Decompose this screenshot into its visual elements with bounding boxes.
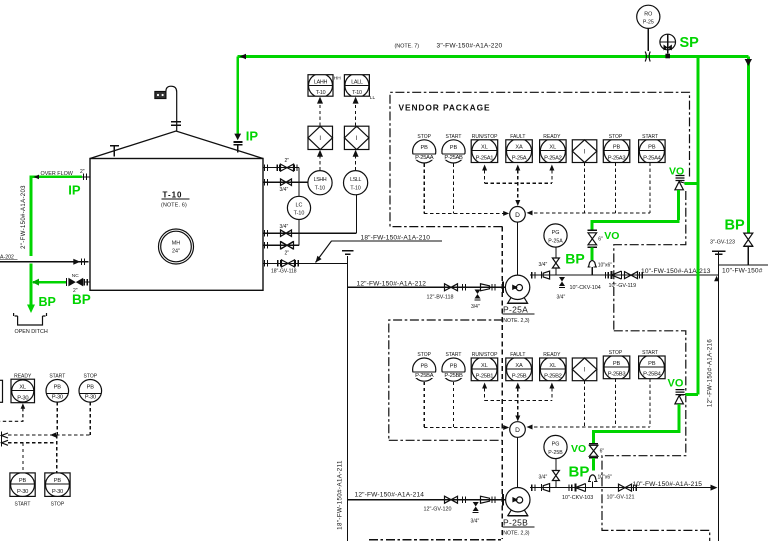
svg-text:12"-BV-118: 12"-BV-118: [427, 294, 454, 300]
label STOP below: [51, 502, 65, 508]
spade blind top: [342, 251, 354, 255]
signal XA down to D: [515, 165, 520, 207]
svg-text:BP: BP: [72, 292, 91, 307]
label HH: [334, 76, 341, 82]
green drop below VO3: [678, 404, 681, 430]
svg-text:P-25B: P-25B: [512, 374, 527, 380]
svg-text:P-25B2: P-25B2: [544, 374, 562, 380]
svg-text:PG: PG: [552, 442, 560, 448]
label SP: [680, 35, 700, 51]
svg-text:START: START: [446, 134, 462, 140]
label VO2: [604, 230, 619, 242]
svg-text:T-10: T-10: [350, 186, 360, 192]
signal PB-BB down: [453, 382, 455, 428]
signal interlock2 down: [584, 381, 586, 427]
svg-text:PB: PB: [54, 385, 62, 391]
svg-text:P-25B: P-25B: [548, 450, 563, 456]
svg-text:PB: PB: [648, 361, 656, 367]
svg-text:READY: READY: [14, 373, 32, 379]
svg-text:(NOTE. 2,3): (NOTE. 2,3): [502, 531, 530, 537]
svg-text:3/4": 3/4": [471, 519, 480, 525]
valve VO1 vendor: [675, 176, 685, 190]
reducer suction A: [481, 284, 496, 291]
overflow label: [41, 171, 74, 177]
LSLL T-10: [344, 171, 368, 195]
drain 3/4 discharge A: [557, 277, 566, 300]
svg-text:RUN/STOP: RUN/STOP: [472, 134, 498, 140]
svg-text:12"-GV-120: 12"-GV-120: [424, 507, 452, 513]
label RUN/STOP 1: [472, 134, 498, 140]
svg-text:PB: PB: [450, 363, 458, 369]
light XL P-25B1: [471, 357, 498, 382]
svg-text:P-25A2: P-25A2: [544, 155, 562, 161]
svg-text:PB: PB: [54, 478, 62, 484]
standpipe upper: [298, 168, 300, 197]
svg-text:XA: XA: [515, 145, 523, 151]
svg-text:2": 2": [285, 158, 290, 164]
signal PB-A3 down: [615, 163, 617, 213]
svg-text:START: START: [15, 502, 31, 508]
label 12-FW-150-A1A-212: [357, 280, 427, 287]
inlet line A-202: [0, 254, 89, 265]
signal XL-A1 up: [482, 165, 487, 184]
svg-text:PG: PG: [552, 230, 560, 236]
pushbutton PB P-25BA: [412, 358, 436, 381]
svg-text:VO: VO: [669, 165, 684, 177]
svg-text:MH: MH: [172, 241, 180, 247]
label STOP 2: [417, 352, 431, 358]
tank T-10 roof: [90, 131, 263, 159]
svg-text:P-25AA: P-25AA: [415, 155, 434, 161]
signal LSHH to interlock: [317, 150, 323, 171]
green to bell B: [592, 458, 595, 471]
svg-text:3/4": 3/4": [557, 294, 566, 300]
svg-text:OPEN DITCH: OPEN DITCH: [15, 329, 48, 335]
tank T-10 label: [161, 190, 190, 208]
svg-text:STOP: STOP: [609, 134, 623, 140]
signal PB-B4 down: [649, 379, 651, 427]
svg-text:24": 24": [172, 249, 180, 255]
svg-text:P-30: P-30: [52, 489, 63, 495]
line no 12-FW-150-A1A-216: [708, 339, 714, 408]
signal XL-A2 up: [549, 165, 554, 184]
svg-text:3"-GV-123: 3"-GV-123: [710, 239, 735, 245]
svg-text:PB: PB: [648, 145, 656, 151]
svg-text:LALL: LALL: [351, 80, 363, 86]
label START P-30: [49, 373, 65, 379]
svg-text:HH: HH: [334, 76, 341, 82]
svg-text:STOP: STOP: [417, 352, 431, 358]
pushbutton PB P-25B4: [639, 355, 666, 380]
svg-text:P-25A3: P-25A3: [608, 155, 626, 161]
pushbutton PB P-30 stop sq: [45, 473, 70, 497]
nozzle 3/4in LSLL tap: [263, 224, 356, 236]
drain 3/4 suction B: [471, 502, 480, 525]
signal XL-B2 up: [549, 383, 554, 401]
label READY P-30: [14, 373, 32, 379]
green arrow to open ditch: [27, 305, 35, 314]
motor line D2 to pump B: [517, 437, 519, 487]
gauge PG P-25A: [544, 224, 567, 247]
green cross line B: [594, 430, 681, 443]
discharge line B: [530, 487, 711, 489]
pump A inlet flange and arrow: [503, 282, 518, 293]
label START below: [15, 502, 31, 508]
light XL P-25B2: [540, 357, 567, 382]
nozzle 2in locked: [263, 241, 299, 256]
pump P-25B: [506, 488, 530, 516]
roof nozzle right (IP target): [233, 142, 242, 153]
svg-text:P-25: P-25: [643, 19, 654, 25]
pipe to right edge: [719, 264, 768, 266]
svg-text:VENDOR PACKAGE: VENDOR PACKAGE: [399, 103, 491, 113]
svg-text:VO: VO: [604, 230, 619, 242]
svg-text:3/4": 3/4": [280, 224, 289, 230]
green drop below VO1: [677, 190, 680, 220]
signal XL P-30 exit: [0, 403, 25, 421]
svg-text:PB: PB: [450, 145, 458, 151]
pushbutton PB P-25B3: [603, 355, 630, 380]
overflow line green: [31, 175, 82, 257]
label P-25A: [502, 305, 535, 324]
svg-text:VO: VO: [571, 443, 586, 455]
svg-text:6": 6": [598, 236, 603, 242]
green to bell A: [591, 247, 594, 260]
svg-text:FAULT: FAULT: [510, 352, 525, 358]
valve VO4 6in: [589, 444, 604, 458]
label STOP P-30: [84, 373, 98, 379]
signal drop to START sq: [22, 443, 24, 473]
pump B inlet flange and arrow: [503, 494, 518, 505]
svg-text:2"-FW-150#-A1A-203: 2"-FW-150#-A1A-203: [21, 185, 27, 249]
svg-text:P-30: P-30: [17, 489, 28, 495]
PG P-25A root valve: [539, 247, 560, 275]
label VO1: [669, 165, 684, 177]
svg-text:10"-CKV-104: 10"-CKV-104: [570, 285, 601, 291]
offpage instrument sliver: [0, 380, 3, 402]
svg-text:P-25A: P-25A: [512, 155, 527, 161]
label 10-FW-150 right: [722, 268, 763, 275]
roof nozzle left: [110, 146, 119, 157]
label 10-CKV-104: [570, 285, 601, 291]
svg-text:PB: PB: [613, 145, 621, 151]
svg-text:10"-FW-150#: 10"-FW-150#: [722, 268, 763, 275]
check valve 10-CKV-103: [562, 484, 593, 501]
svg-text:START: START: [642, 350, 658, 356]
gauge PG P-25B: [544, 435, 567, 458]
signal PB-B3 down: [615, 379, 617, 427]
header 18-FW down: [347, 256, 349, 541]
drain 3/4 suction A: [471, 290, 481, 311]
svg-text:6": 6": [600, 448, 605, 454]
nozzle 2in top: [263, 158, 299, 171]
label START 1: [446, 134, 462, 140]
flow arrow top left: [240, 54, 247, 60]
svg-text:T-10: T-10: [163, 190, 183, 199]
svg-text:18"-FW-150#-A1A-210: 18"-FW-150#-A1A-210: [361, 234, 431, 241]
svg-text:3/4": 3/4": [539, 262, 548, 268]
signal XL-B1 up: [482, 383, 487, 401]
svg-text:D: D: [515, 427, 520, 434]
label FAULT 2: [510, 352, 525, 358]
svg-text:10"-CKV-103: 10"-CKV-103: [562, 495, 593, 501]
label BP left2: [72, 292, 91, 307]
svg-text:LL: LL: [370, 95, 376, 101]
nozzle 18in outlet: [263, 260, 348, 274]
svg-text:XL: XL: [549, 363, 556, 369]
spade blind right header: [712, 251, 726, 254]
svg-text:2": 2": [80, 169, 85, 175]
valve 12-GV-120: [424, 496, 466, 513]
svg-text:VO: VO: [668, 377, 684, 389]
valve VO2 6in: [588, 230, 603, 247]
signal bus mid1: [485, 182, 552, 184]
light XL P-25A1: [471, 139, 498, 164]
discharge flanges B: [532, 484, 535, 490]
svg-text:3"-FW-150#-A1A-220: 3"-FW-150#-A1A-220: [437, 42, 503, 49]
tank manway MH 24in: [159, 229, 194, 264]
label NOTE 7: [395, 43, 420, 49]
orifice plate symbol: [645, 52, 650, 62]
vendor package 1 title: [399, 103, 491, 113]
line label 18-FW-150-A1A-210: [316, 234, 442, 262]
alarm XA P-25A: [506, 139, 533, 164]
svg-text:10"-FW-150#-A1A-215: 10"-FW-150#-A1A-215: [633, 481, 703, 488]
bypass line green: [32, 279, 66, 286]
svg-text:READY: READY: [543, 352, 561, 358]
label P-25B: [502, 518, 535, 537]
label 3-FW-150-A1A-220: [437, 42, 503, 49]
svg-text:18"-GV-118: 18"-GV-118: [271, 268, 297, 274]
flame screen E55: [155, 92, 166, 99]
valve VO3 vendor: [675, 390, 685, 404]
signal bus P-30 1: [8, 433, 90, 438]
LC T-10: [287, 196, 310, 219]
standpipe lower: [298, 219, 300, 245]
interlock I left: [308, 126, 333, 149]
pushbutton PB P-25A3: [603, 139, 630, 164]
svg-text:P-25B: P-25B: [503, 518, 528, 528]
pushbutton PB P-30 start: [46, 380, 69, 403]
svg-text:XL: XL: [481, 145, 488, 151]
svg-text:XL: XL: [549, 145, 556, 151]
label STOP 1b: [609, 134, 623, 140]
discharge reducer B: [542, 484, 550, 492]
open ditch text: [15, 329, 48, 335]
green header 3-FW-A1A-220: [238, 55, 749, 58]
svg-text:D: D: [515, 212, 520, 219]
svg-text:NC: NC: [72, 273, 79, 279]
svg-text:PB: PB: [613, 361, 621, 367]
pushbutton PB P-25AA: [412, 140, 436, 163]
svg-text:RUN/STOP: RUN/STOP: [472, 352, 498, 358]
svg-text:LC: LC: [296, 202, 303, 208]
motor line D to pump A: [517, 222, 519, 275]
light XL P-30: [11, 379, 35, 403]
svg-text:PB: PB: [420, 363, 428, 369]
svg-text:STOP: STOP: [609, 350, 623, 356]
offpage connector: [2, 432, 9, 447]
label 12-FW-150-A1A-214: [355, 491, 425, 498]
alarm LAHH T-10: [308, 73, 333, 97]
LSHH T-10: [308, 171, 332, 195]
PG P-25B root valve: [539, 459, 560, 488]
label READY 1: [543, 134, 561, 140]
svg-text:3/4": 3/4": [539, 474, 548, 480]
label 10-FW-150-A1A-215: [633, 481, 703, 488]
valve 12-BV-118: [427, 284, 466, 301]
green drop right to 3GV123: [745, 57, 752, 233]
line no 18-FW-150-A1A-211: [337, 460, 344, 530]
signal bus mid2: [485, 399, 552, 401]
label START 1b: [642, 134, 658, 140]
suction line B 12-A1A-214: [348, 499, 506, 501]
svg-text:P-25B4: P-25B4: [643, 372, 662, 378]
signal LSLL to interlock: [353, 150, 359, 171]
tank T-10 shell: [90, 159, 263, 291]
RO P-25 orifice: [637, 5, 660, 51]
svg-text:IP: IP: [68, 183, 81, 198]
signal PB-A4 down: [649, 163, 651, 213]
svg-text:T-10: T-10: [352, 90, 362, 96]
svg-text:P-25BA: P-25BA: [415, 373, 434, 379]
label FAULT 1: [510, 134, 525, 140]
3in drop to pipe: [747, 246, 749, 265]
svg-text:T-10: T-10: [315, 186, 325, 192]
svg-text:SP: SP: [680, 35, 700, 51]
signal bus P-30 2: [8, 442, 57, 444]
signal interlock to LALL: [353, 97, 359, 126]
suction line 12-A1A-212: [348, 286, 506, 288]
svg-text:10"-GV-119: 10"-GV-119: [609, 283, 637, 289]
svg-text:12"-FW-150#-A1A-212: 12"-FW-150#-A1A-212: [357, 280, 427, 287]
signal bus2 left to D: [424, 425, 509, 430]
svg-text:P-30: P-30: [52, 394, 63, 400]
signal PB-AB down: [453, 164, 455, 214]
svg-text:STOP: STOP: [417, 134, 431, 140]
svg-text:(NOTE. 6): (NOTE. 6): [161, 203, 187, 209]
svg-text:READY: READY: [543, 134, 561, 140]
label BP left1: [39, 295, 56, 309]
label VO4: [571, 443, 586, 455]
svg-text:P-25A4: P-25A4: [643, 155, 662, 161]
nozzle 3/4in LSHH: [263, 179, 308, 193]
svg-text:P-25AB: P-25AB: [444, 155, 463, 161]
relief bell BP A: [587, 261, 612, 276]
label STOP 2b: [609, 350, 623, 356]
svg-text:18"-FW-150#-A1A-211: 18"-FW-150#-A1A-211: [337, 460, 344, 530]
svg-text:FAULT: FAULT: [510, 134, 525, 140]
svg-text:LSHH: LSHH: [314, 177, 327, 183]
green cross line A: [592, 220, 679, 230]
svg-text:START: START: [49, 373, 65, 379]
svg-text:XL: XL: [481, 363, 488, 369]
svg-text:START: START: [446, 352, 462, 358]
line no 2-FW-150-A1A-203: [21, 185, 27, 249]
pushbutton PB P-30 start sq: [10, 473, 35, 497]
svg-text:PB: PB: [87, 385, 95, 391]
svg-text:PB: PB: [420, 145, 428, 151]
discharge flanges A: [532, 272, 535, 278]
svg-text:P-30: P-30: [17, 396, 28, 402]
svg-text:12"-FW-150#-A1A-216: 12"-FW-150#-A1A-216: [708, 339, 714, 408]
flow arrow into header: [714, 276, 719, 282]
label BP low: [569, 464, 590, 481]
svg-text:3/4": 3/4": [280, 187, 289, 193]
label STOP 1: [417, 134, 431, 140]
svg-text:10"-GV-121: 10"-GV-121: [607, 494, 635, 500]
relief bell BP B: [588, 475, 612, 488]
vendor package 2 boundary: [369, 320, 710, 541]
svg-text:(NOTE. 2,3): (NOTE. 2,3): [502, 318, 530, 324]
svg-text:10"-FW-150#-A1A-213: 10"-FW-150#-A1A-213: [641, 268, 711, 275]
svg-text:P-25A1: P-25A1: [476, 155, 494, 161]
svg-text:10"x6": 10"x6": [598, 262, 613, 268]
svg-text:XL: XL: [19, 384, 26, 390]
svg-text:IP: IP: [246, 129, 259, 144]
signal bus1 left to D: [424, 211, 509, 216]
label 10-FW-150-A1A-213: [641, 268, 711, 275]
controller D pkg1: [510, 207, 526, 223]
svg-text:P-25A: P-25A: [503, 305, 528, 315]
alarm LALL T-10: [344, 73, 369, 97]
svg-text:BP: BP: [565, 250, 584, 266]
header 10-FW right: [718, 251, 720, 541]
svg-text:T-10: T-10: [294, 211, 305, 217]
svg-text:BP: BP: [39, 295, 56, 309]
NC valve 2in: [67, 273, 90, 294]
valve 10-GV-121: [607, 484, 637, 500]
svg-text:LSLL: LSLL: [350, 177, 361, 183]
label READY 2: [543, 352, 561, 358]
label RUN/STOP 2: [472, 352, 498, 358]
label IP top: [246, 129, 259, 144]
pump P-25A: [505, 275, 529, 303]
svg-text:10"x6": 10"x6": [598, 475, 613, 481]
svg-text:START: START: [642, 134, 658, 140]
signal bus1 right to D: [527, 210, 651, 215]
svg-text:PB: PB: [19, 478, 27, 484]
svg-text:RO: RO: [644, 11, 652, 17]
svg-text:BP: BP: [725, 218, 745, 234]
controller D pkg2: [510, 422, 526, 438]
green drop mid (to VO valves): [696, 57, 699, 395]
svg-text:P-25A: P-25A: [548, 238, 563, 244]
svg-text:LAHH: LAHH: [314, 80, 328, 86]
svg-text:STOP: STOP: [51, 502, 65, 508]
green stub VO1: [685, 182, 698, 185]
interlock I pkg2: [572, 358, 597, 381]
label BP right: [725, 218, 745, 234]
overflow nozzle 2in: [80, 169, 90, 180]
signal interlock to LAHH: [317, 97, 323, 126]
svg-text:STOP: STOP: [84, 373, 98, 379]
signal PB-BA down: [423, 382, 425, 428]
svg-text:P-25BB: P-25BB: [444, 373, 463, 379]
svg-text:P-30: P-30: [85, 394, 96, 400]
label IP left: [68, 183, 81, 198]
signal interlock1 down: [584, 163, 586, 213]
check valve 10-CKV-104: [606, 271, 622, 279]
interlock I pkg1: [572, 140, 597, 163]
green elbow to VO3: [685, 393, 698, 396]
label START 2b: [642, 350, 658, 356]
svg-text:P-25B3: P-25B3: [608, 372, 626, 378]
label VO3: [668, 377, 684, 389]
signal bus2 right to D2: [527, 425, 651, 430]
signal drop to STOP sq: [56, 435, 58, 473]
drain line green lower: [30, 263, 33, 305]
